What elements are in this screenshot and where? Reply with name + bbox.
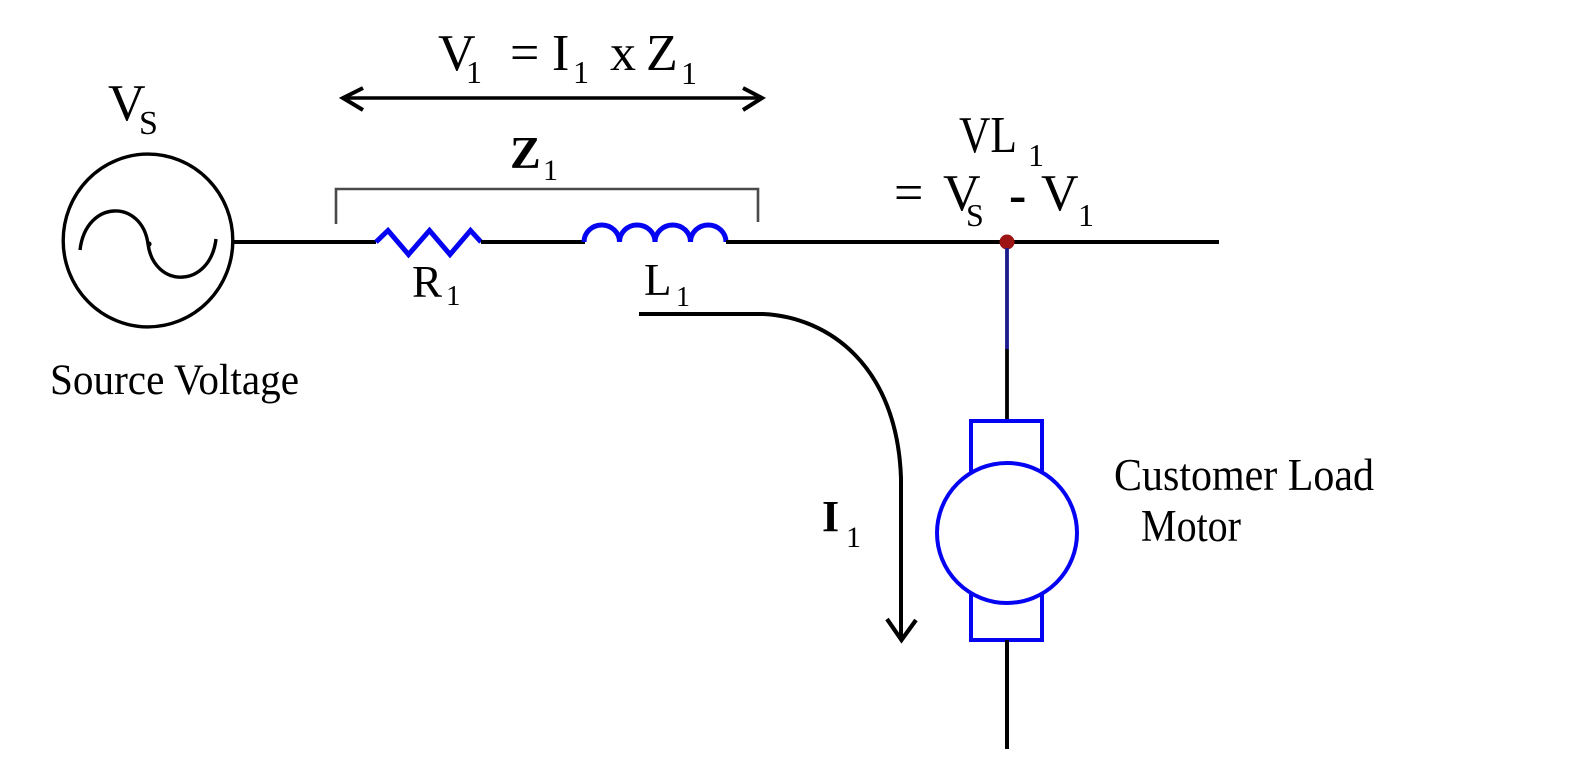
svg-text:1: 1 (543, 154, 558, 187)
impedance bracket Z1 (336, 189, 758, 224)
wire motor bottom (1005, 640, 1009, 749)
sine wave inside source (80, 211, 216, 277)
svg-text:I: I (552, 25, 569, 82)
resistor R1 (376, 231, 481, 255)
svg-text:-: - (1009, 167, 1026, 224)
wire node down navy (1005, 248, 1009, 349)
svg-text:1: 1 (573, 54, 589, 90)
svg-text:1: 1 (676, 282, 690, 313)
svg-text:Z: Z (646, 25, 678, 82)
svg-text:Customer Load: Customer Load (1114, 450, 1374, 500)
svg-text:Motor: Motor (1141, 501, 1241, 551)
motor top terminal (971, 421, 1042, 479)
svg-text:1: 1 (446, 280, 461, 312)
node VL1 junction dot (1000, 235, 1015, 250)
svg-text:x: x (610, 25, 636, 82)
svg-text:Source Voltage: Source Voltage (50, 357, 299, 404)
source VS circle (63, 154, 233, 327)
motor bottom terminal (971, 586, 1042, 640)
motor body circle (937, 463, 1077, 603)
center dot of source (146, 241, 151, 246)
wire navy to motor black (1005, 349, 1009, 422)
svg-text:R: R (412, 257, 442, 307)
svg-text:1: 1 (681, 55, 697, 91)
svg-text:VL: VL (959, 107, 1017, 164)
svg-text:1: 1 (1078, 197, 1094, 233)
svg-text:1: 1 (466, 54, 482, 90)
svg-text:V: V (1041, 165, 1079, 222)
current arrow I1 head (887, 619, 916, 640)
wire R1 to L1 (481, 240, 585, 244)
svg-text:L: L (644, 255, 672, 305)
inductor L1 (584, 225, 726, 242)
svg-text:=: = (510, 25, 539, 82)
current arrow I1 curve (639, 314, 901, 637)
svg-text:S: S (139, 105, 158, 142)
svg-text:S: S (966, 197, 984, 233)
dimension arrow V1 span (343, 88, 762, 110)
equation = VS - V1 (894, 165, 1094, 233)
wire L1 to right end (726, 240, 1219, 244)
equation V1 = I1 x Z1 (438, 25, 697, 91)
svg-text:1: 1 (846, 521, 861, 554)
svg-text:=: = (894, 165, 923, 222)
wire source to R1 (233, 240, 376, 244)
svg-text:Z: Z (510, 127, 541, 178)
svg-text:I: I (822, 492, 839, 541)
